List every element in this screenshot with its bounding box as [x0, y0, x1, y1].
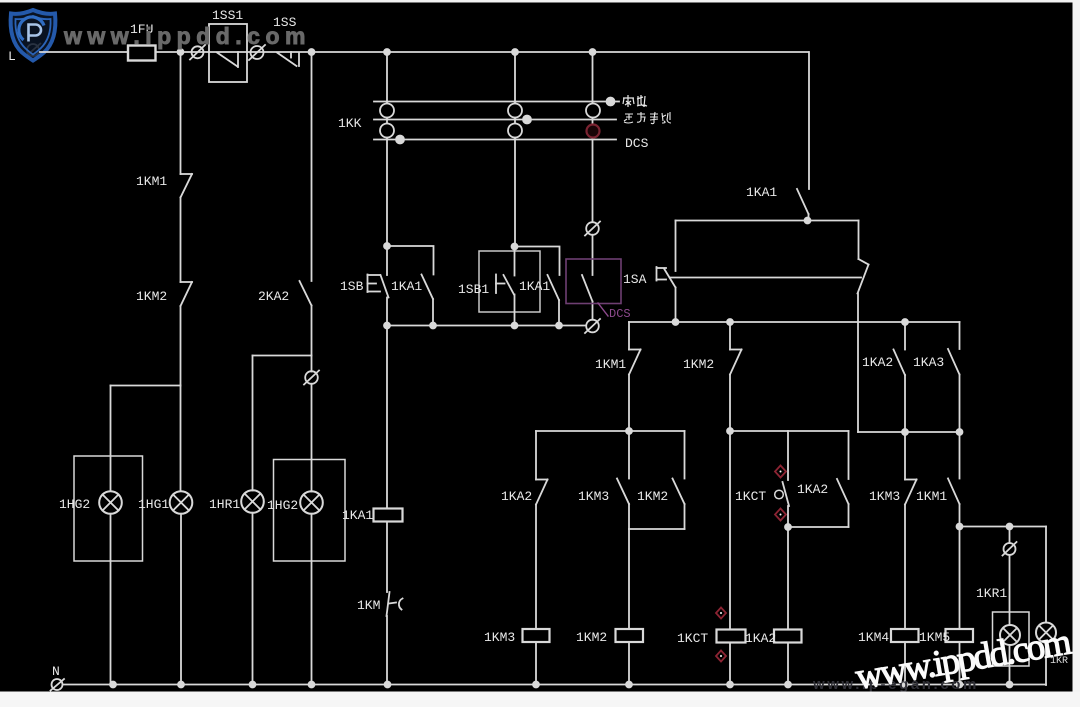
junction — [785, 524, 791, 530]
wire — [904, 375, 906, 432]
selector 1SA middle bar — [670, 277, 861, 279]
selector 1SA left contact — [657, 267, 676, 288]
wire horiz4 — [629, 528, 685, 530]
svg-text:1KCT: 1KCT — [677, 631, 708, 646]
svg-text:1KCT: 1KCT — [735, 489, 766, 504]
wire branch — [515, 247, 560, 276]
junction — [178, 682, 184, 688]
wire — [252, 513, 254, 685]
contact 1KA2 NO mid — [837, 479, 849, 504]
wire bottom rail N — [63, 684, 1046, 686]
svg-text:1KA3: 1KA3 — [913, 355, 944, 370]
junction — [1007, 524, 1013, 530]
junction — [523, 116, 531, 124]
switch 1SS contact — [277, 52, 299, 66]
wire — [848, 504, 850, 527]
terminal N — [51, 679, 65, 691]
wire — [535, 431, 537, 480]
junction — [250, 682, 256, 688]
junction — [626, 428, 632, 434]
svg-text:1SB: 1SB — [340, 279, 364, 294]
wire left column — [180, 52, 182, 174]
pushbutton 1SB — [368, 275, 389, 298]
contact 1KCT special — [775, 482, 789, 506]
junction — [902, 682, 908, 688]
switch 1SS1 contact — [217, 52, 238, 67]
contact 1KM2 NC — [181, 282, 193, 306]
svg-text:www.ippdd.com: www.ippdd.com — [63, 23, 311, 49]
1KK contact circle — [508, 124, 522, 138]
wire horiz3 — [536, 430, 685, 432]
wire horiz6 — [788, 526, 849, 528]
selector 1SA top bar — [676, 220, 859, 222]
wire — [959, 504, 961, 527]
wire — [628, 529, 630, 629]
coil 1KA2 — [774, 630, 802, 643]
wire — [311, 514, 313, 685]
svg-text:1KR1: 1KR1 — [976, 586, 1007, 601]
wire — [110, 386, 112, 492]
svg-text:1KM3: 1KM3 — [484, 630, 515, 645]
box DCS purple — [566, 259, 621, 304]
logo shield blue — [11, 10, 56, 61]
1KK contact circle red — [587, 125, 600, 138]
svg-text:1KM1: 1KM1 — [916, 489, 947, 504]
contact 1KM3 NC right — [905, 480, 917, 505]
junction node 1SB — [384, 243, 390, 249]
wire — [1009, 645, 1011, 685]
coil 1KCT — [717, 630, 746, 643]
wire — [959, 322, 961, 349]
wire — [432, 299, 434, 326]
contact 1KA2 NO right — [894, 350, 906, 376]
junction — [430, 323, 436, 329]
contact DCS NO — [582, 275, 593, 302]
junction — [309, 682, 315, 688]
contact 1KM3 NO — [617, 479, 629, 505]
wire — [904, 505, 906, 630]
svg-text:1KA1: 1KA1 — [391, 279, 422, 294]
svg-text:N: N — [52, 664, 60, 679]
svg-text:DCS: DCS — [609, 307, 631, 321]
wire — [628, 504, 630, 529]
junction — [512, 323, 518, 329]
wire — [1009, 527, 1011, 544]
wire 1KK column1 — [386, 52, 388, 246]
junction — [178, 49, 184, 55]
wire — [614, 101, 619, 103]
wire — [180, 198, 182, 283]
wire — [628, 431, 630, 479]
junction — [396, 136, 404, 144]
wire — [180, 306, 182, 386]
wire — [959, 432, 961, 479]
1KK contact circle — [586, 104, 600, 118]
wire — [787, 527, 789, 630]
wire — [386, 298, 388, 326]
junction — [957, 429, 963, 435]
terminal L — [25, 43, 41, 57]
junction — [957, 682, 963, 688]
fake CJK 远方手动 row2 — [624, 112, 671, 124]
wire branch — [387, 246, 434, 275]
terminal circle — [304, 371, 319, 385]
svg-text:1KM: 1KM — [357, 598, 380, 613]
switch 1KK row1 — [374, 101, 607, 103]
contact 1KM2 NO — [673, 479, 685, 505]
wire — [729, 322, 731, 350]
wire branch — [253, 355, 312, 357]
wire crossing — [857, 294, 859, 433]
wire — [558, 300, 560, 326]
wire horiz7 — [858, 431, 960, 433]
svg-text:1KA1: 1KA1 — [746, 185, 777, 200]
lamp 1HG1 — [170, 491, 193, 514]
junction — [626, 682, 632, 688]
junction — [384, 323, 390, 329]
wire — [729, 431, 731, 630]
contact 1KA1 top right — [797, 52, 809, 221]
wire — [514, 247, 516, 276]
terminal circle DCS top — [585, 222, 600, 236]
svg-text:1KM4: 1KM4 — [858, 630, 889, 645]
selector 1SA right contact — [858, 221, 869, 294]
coil 1KA1 — [374, 509, 403, 522]
contact 1KA1b NO — [548, 275, 560, 300]
junction node 1SB1 — [512, 244, 518, 250]
svg-text:1KA2: 1KA2 — [501, 489, 532, 504]
wire — [675, 221, 677, 272]
wire rail2 — [629, 321, 960, 323]
junction — [512, 49, 518, 55]
svg-text:1KA2: 1KA2 — [745, 631, 776, 646]
svg-text:1KA1: 1KA1 — [342, 508, 373, 523]
wire — [1045, 643, 1047, 686]
svg-text:1KM2: 1KM2 — [637, 489, 668, 504]
switch 1KK row2 — [374, 119, 616, 121]
wire — [904, 322, 906, 350]
contact 1KA2 NC left — [536, 480, 548, 505]
wire — [684, 431, 686, 479]
junction — [727, 428, 733, 434]
junction — [727, 319, 733, 325]
contact 1KA3 NO — [948, 349, 960, 375]
wire — [787, 643, 789, 686]
wire — [535, 505, 537, 630]
svg-text:1HG1: 1HG1 — [138, 497, 169, 512]
wire top rail L — [40, 51, 809, 53]
svg-text:1KM3: 1KM3 — [869, 489, 900, 504]
junction — [902, 319, 908, 325]
svg-text:1KM2: 1KM2 — [136, 289, 167, 304]
wire 2KA2 column — [311, 52, 313, 281]
svg-text:1SS1: 1SS1 — [212, 8, 243, 23]
wire — [904, 642, 906, 685]
wire — [848, 431, 850, 479]
wire 1KA1 coil column — [386, 326, 388, 509]
wire — [110, 514, 112, 685]
svg-text:1KM1: 1KM1 — [136, 174, 167, 189]
mark diamond red top — [775, 466, 786, 478]
wire — [535, 642, 537, 685]
contact 1KM1 NO right — [948, 479, 960, 505]
mark diamond red coil bottom — [716, 651, 726, 662]
mark diamond red bottom — [775, 509, 786, 521]
wire — [729, 375, 731, 432]
junction — [385, 682, 391, 688]
contact 1KM1 NC mid — [629, 350, 641, 375]
wire — [787, 431, 789, 480]
wire — [180, 514, 182, 685]
wire — [592, 235, 594, 275]
wire — [628, 642, 630, 685]
wire rail1 — [387, 325, 586, 327]
coil 1KM5 — [946, 629, 974, 642]
wire 1KK column3 — [592, 52, 594, 222]
junction — [1007, 682, 1013, 688]
terminal circle 1KR1 — [1003, 542, 1017, 556]
svg-text:1KM2: 1KM2 — [576, 630, 607, 645]
junction — [556, 323, 562, 329]
wire — [959, 375, 961, 433]
junction — [902, 429, 908, 435]
wire — [311, 384, 313, 492]
wire — [180, 386, 182, 492]
junction — [957, 524, 963, 530]
wire — [904, 432, 906, 480]
svg-text:1HG2: 1HG2 — [59, 497, 90, 512]
fake CJK 本地 row1 — [623, 95, 647, 107]
junction — [309, 49, 315, 55]
svg-text:1KM2: 1KM2 — [683, 357, 714, 372]
lamp 1HG2b — [300, 491, 323, 514]
wire horiz8 lamps — [960, 526, 1047, 528]
svg-text:DCS: DCS — [625, 136, 649, 151]
wire — [386, 246, 388, 275]
junction — [805, 218, 811, 224]
wire — [1045, 527, 1047, 623]
junction — [673, 319, 679, 325]
wire — [386, 616, 388, 685]
box around lamp — [274, 460, 346, 562]
wire — [386, 522, 388, 593]
box around lamp right — [993, 612, 1030, 666]
1KK contact circle — [380, 124, 394, 138]
wire — [628, 375, 630, 432]
wire branch to lamp column — [111, 385, 181, 387]
lamp 1HR1 — [241, 490, 264, 513]
terminal circle DCS bottom — [585, 319, 600, 333]
1KK contact circle — [508, 104, 522, 118]
contact 1KM1 NC — [181, 174, 193, 198]
wire — [684, 504, 686, 529]
contact 1KM2 NC mid — [730, 350, 742, 375]
wire — [311, 306, 313, 372]
mark DCS purple tick — [598, 303, 608, 316]
junction — [110, 682, 116, 688]
svg-text:1KA2: 1KA2 — [797, 482, 828, 497]
wire — [959, 642, 961, 685]
junction — [533, 682, 539, 688]
terminal circle — [249, 45, 265, 60]
svg-text:1KM3: 1KM3 — [578, 489, 609, 504]
pushbutton 1SB1 — [496, 275, 514, 295]
contact 1KA1 NO — [422, 275, 434, 300]
svg-text:1SB1: 1SB1 — [458, 282, 489, 297]
coil 1KM4 — [891, 629, 919, 642]
coil 1KM2 — [616, 629, 644, 642]
svg-text:1KK: 1KK — [338, 116, 362, 131]
contact 1KM delayed — [387, 592, 403, 616]
junction — [727, 682, 733, 688]
svg-text:1HG2: 1HG2 — [267, 498, 298, 513]
wire — [959, 527, 961, 630]
wire — [675, 288, 677, 323]
border right white — [1073, 0, 1080, 707]
switch 1KK row3 — [374, 139, 616, 141]
junction — [590, 49, 596, 55]
svg-text:2KA2: 2KA2 — [258, 289, 289, 304]
contact 2KA2 NO — [300, 281, 312, 306]
border bottom white — [0, 692, 1080, 707]
junction — [607, 98, 615, 106]
wire — [729, 643, 731, 686]
lamp 1HG2 — [99, 491, 122, 514]
wire — [787, 506, 789, 527]
switch 1SS1 box — [209, 24, 247, 82]
wire 1KK column2 — [514, 52, 516, 247]
svg-text:1SA: 1SA — [623, 272, 647, 287]
1KK contact circle — [380, 104, 394, 118]
junction — [384, 49, 390, 55]
wire — [592, 302, 594, 320]
wire horiz5 — [730, 430, 849, 432]
lamp 1KR — [1036, 623, 1056, 643]
border top white — [0, 0, 1080, 3]
terminal circle — [190, 45, 205, 60]
box around 1SB1 — [479, 251, 540, 312]
box around lamp — [74, 456, 143, 561]
mark diamond red coil top — [716, 608, 726, 619]
svg-text:L: L — [8, 49, 16, 64]
svg-text:1KA1: 1KA1 — [519, 279, 550, 294]
wire — [514, 295, 516, 326]
fuse 1FU — [128, 46, 156, 61]
svg-text:1KM1: 1KM1 — [595, 357, 626, 372]
junction — [785, 682, 791, 688]
wire — [628, 322, 630, 350]
wire — [252, 356, 254, 491]
coil 1KM3 — [523, 629, 550, 642]
svg-text:1KA2: 1KA2 — [862, 355, 893, 370]
svg-text:1HR1: 1HR1 — [209, 497, 240, 512]
wire — [1009, 555, 1011, 625]
lamp 1KR1 — [1000, 625, 1020, 645]
